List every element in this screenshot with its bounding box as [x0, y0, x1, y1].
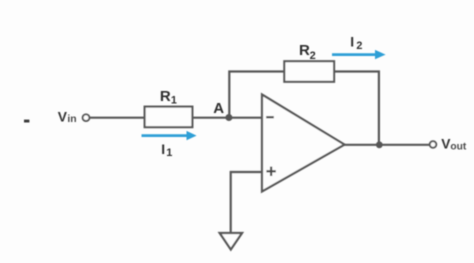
svg-text:1: 1	[171, 95, 177, 107]
svg-text:in: in	[67, 114, 76, 125]
terminal Vout	[430, 141, 437, 148]
ground	[220, 233, 242, 250]
svg-text:R: R	[299, 42, 310, 59]
svg-text:out: out	[450, 141, 466, 152]
minus sign (inverting input)	[266, 116, 274, 118]
svg-text:1: 1	[166, 147, 172, 159]
plus sign (non-inverting input)	[266, 167, 275, 176]
svg-text:I: I	[350, 35, 354, 50]
wire node A up and to R2	[229, 72, 285, 118]
svg-text:V: V	[58, 109, 68, 124]
resistor R1	[145, 107, 193, 128]
terminal Vin	[83, 114, 90, 121]
op-amp U1	[262, 95, 345, 192]
svg-text:R: R	[160, 88, 171, 105]
svg-text:I: I	[161, 142, 165, 157]
wire Vin to R1	[90, 117, 145, 119]
output junction dot	[376, 141, 383, 148]
bullet dash	[24, 120, 29, 123]
resistor R2	[284, 61, 334, 82]
current arrow I1	[142, 131, 197, 140]
svg-text:2: 2	[310, 50, 316, 62]
node A dot	[225, 114, 232, 121]
output wire	[344, 144, 430, 146]
current arrow I2	[332, 50, 386, 59]
wire R1 to op-amp minus input	[192, 117, 263, 119]
wire R2 right, down to output junction	[334, 72, 379, 147]
svg-text:A: A	[213, 100, 224, 117]
svg-text:2: 2	[356, 40, 362, 52]
wire plus input to ground	[231, 172, 262, 234]
